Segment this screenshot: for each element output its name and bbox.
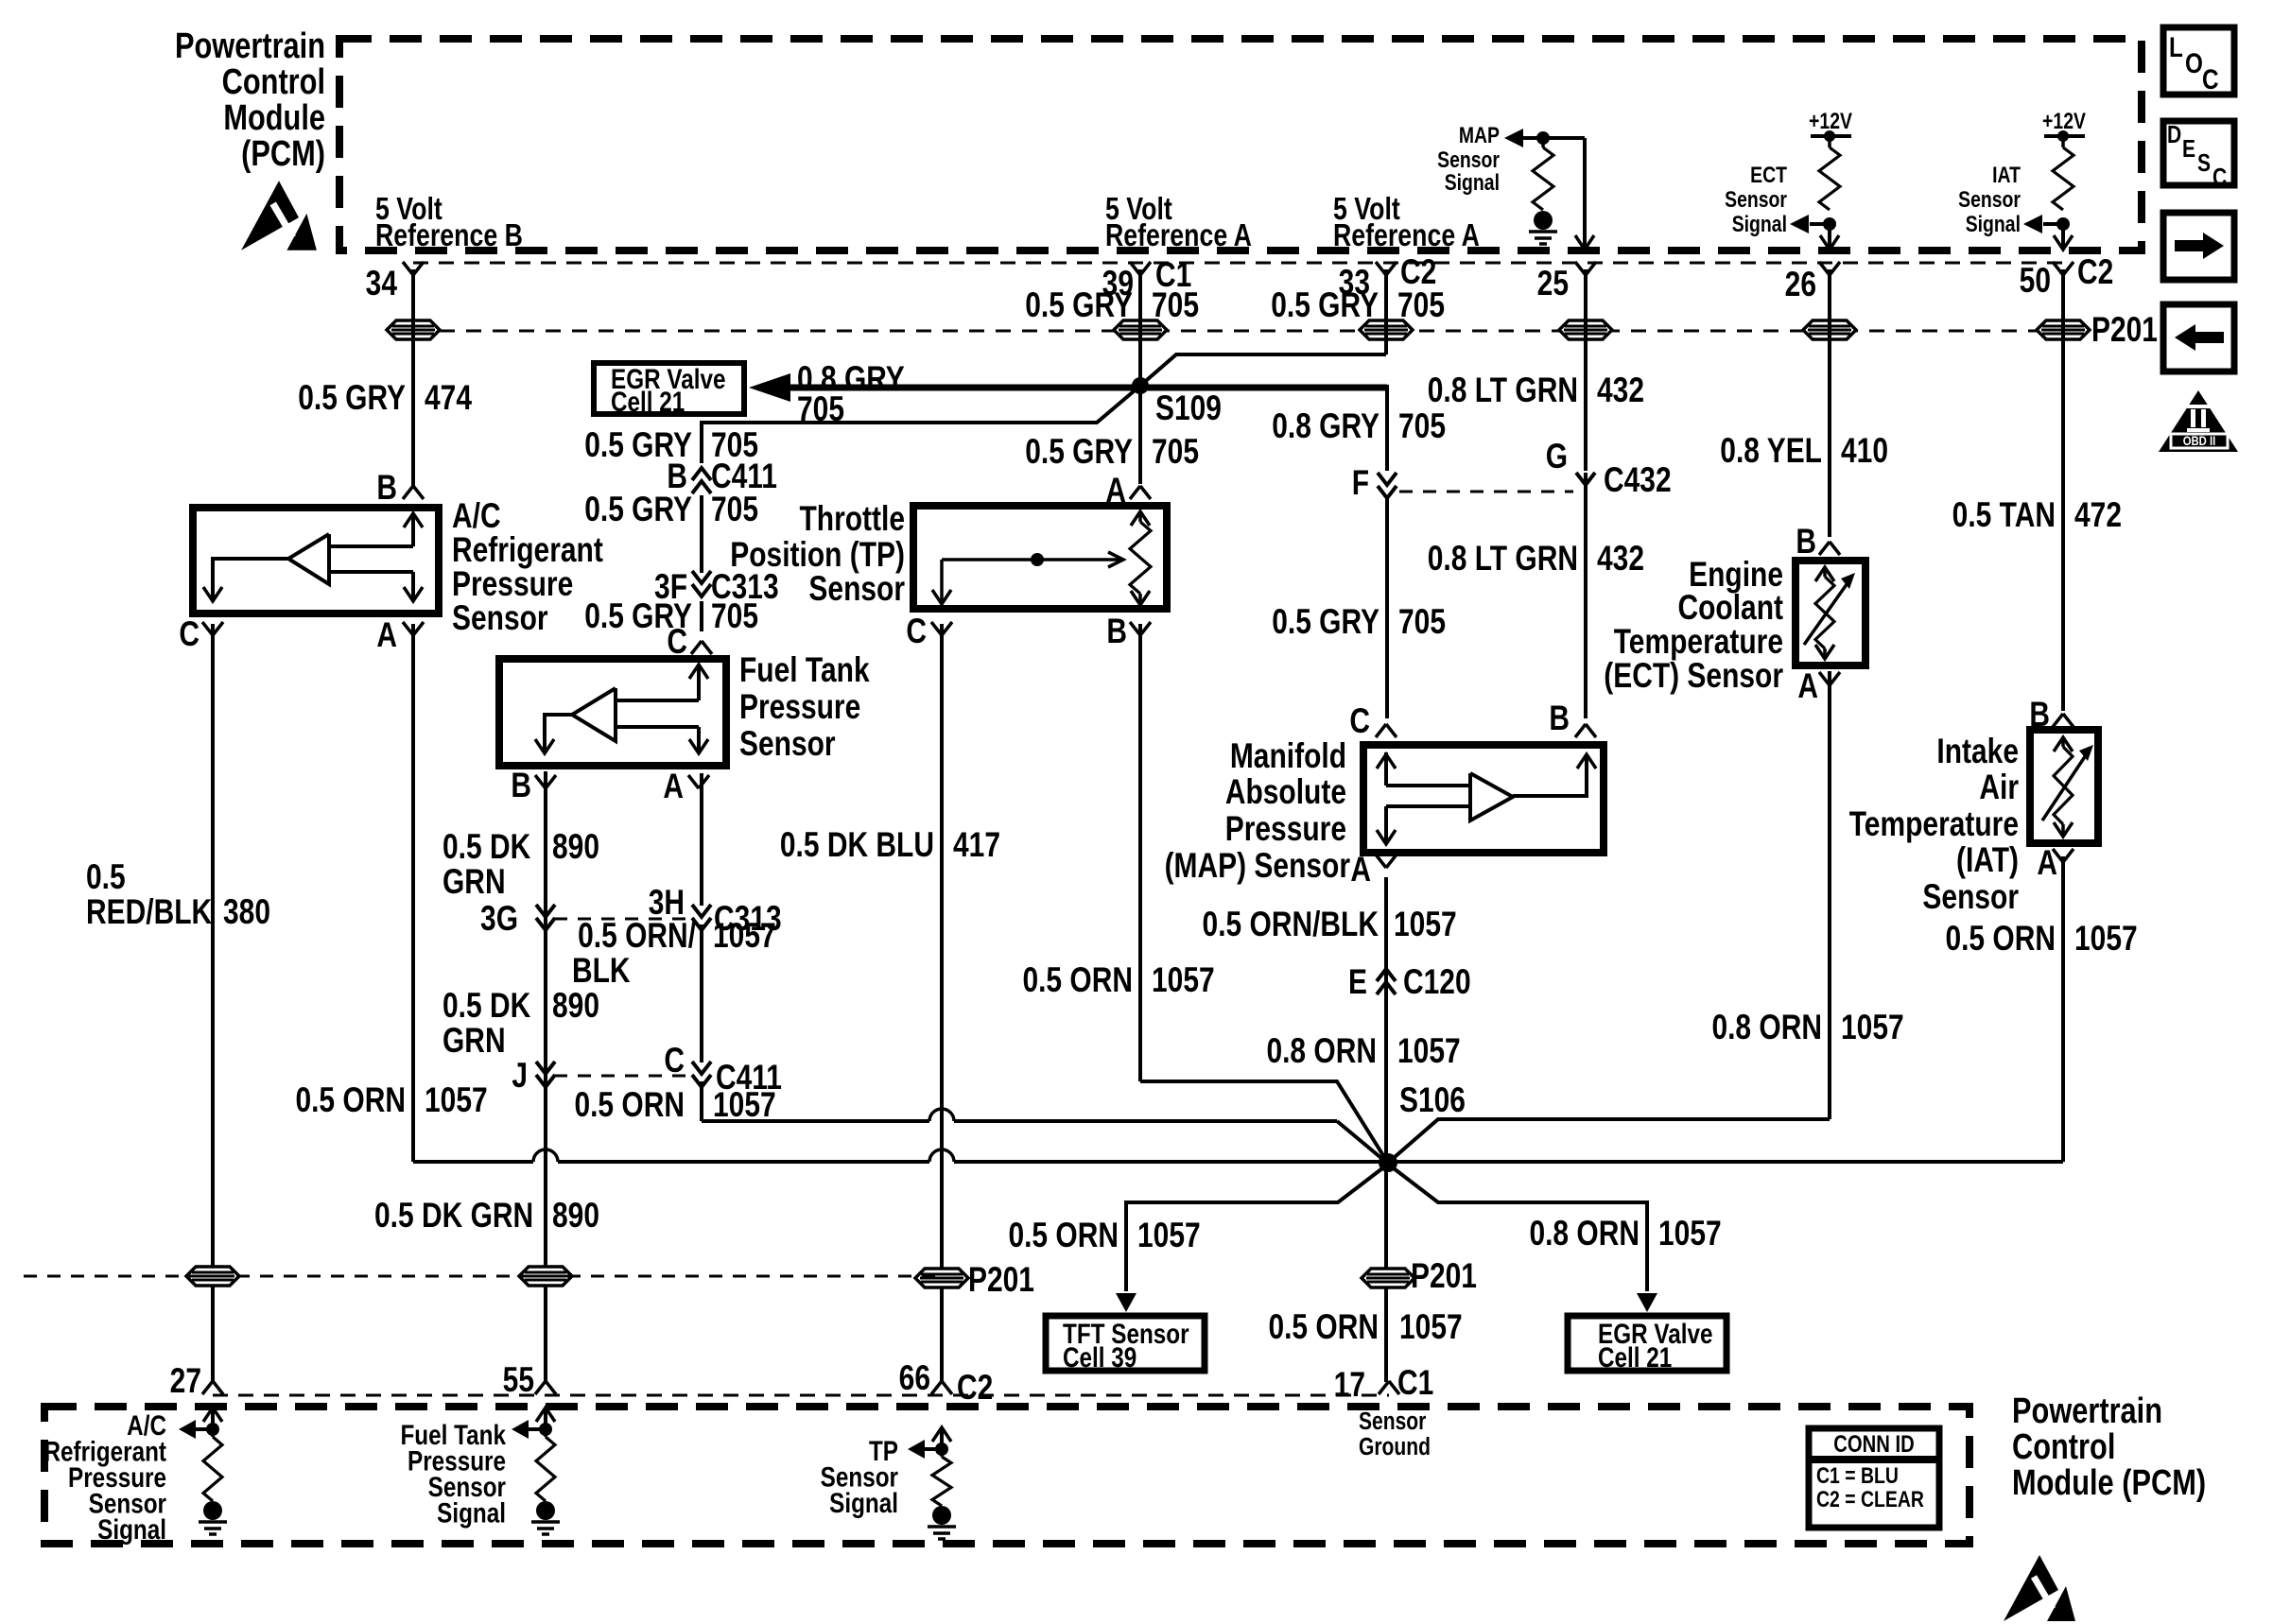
svg-text:0.5 ORN: 0.5 ORN [1945,920,2056,959]
svg-text:0.5 ORN: 0.5 ORN [1022,961,1133,1000]
svg-text:1057: 1057 [1397,1032,1461,1071]
svg-text:0.8 GRY: 0.8 GRY [1272,407,1379,446]
svg-text:C2 = CLEAR: C2 = CLEAR [1816,1486,1924,1512]
svg-text:C1: C1 [1397,1364,1433,1403]
svg-text:C120: C120 [1403,963,1471,1002]
svg-text:C: C [2202,63,2219,95]
svg-text:0.5 GRY: 0.5 GRY [1025,433,1133,472]
svg-text:3G: 3G [480,900,518,939]
svg-text:1057: 1057 [1399,1308,1463,1347]
svg-text:E: E [2182,136,2195,164]
svg-text:F: F [1352,464,1369,503]
svg-text:0.8 ORN: 0.8 ORN [1711,1009,1822,1047]
svg-text:C1 = BLU: C1 = BLU [1816,1462,1899,1488]
svg-text:25: 25 [1537,265,1569,303]
svg-text:0.5 ORN/: 0.5 ORN/ [578,917,696,956]
svg-text:ECT: ECT [1750,162,1787,187]
svg-text:0.5 ORN: 0.5 ORN [1268,1308,1379,1347]
svg-text:L: L [2169,31,2183,63]
svg-text:Sensor: Sensor [452,599,548,638]
svg-text:A: A [1797,667,1818,706]
svg-text:417: 417 [953,826,1000,865]
svg-text:+12V: +12V [2042,108,2086,133]
svg-text:Throttle: Throttle [799,500,905,539]
svg-text:380: 380 [223,893,270,932]
svg-text:C2: C2 [2077,253,2113,292]
svg-text:890: 890 [552,828,599,867]
svg-text:Cell 21: Cell 21 [611,386,685,418]
svg-text:Position (TP): Position (TP) [730,536,905,575]
svg-text:Temperature: Temperature [1614,623,1783,662]
svg-text:0.8 YEL: 0.8 YEL [1720,432,1822,471]
svg-text:17: 17 [1334,1366,1365,1405]
svg-text:C: C [664,1042,685,1080]
svg-text:+12V: +12V [1809,108,1852,133]
svg-text:0.8 ORN: 0.8 ORN [1266,1032,1377,1071]
svg-text:C: C [1349,702,1370,741]
svg-text:1057: 1057 [713,1086,776,1125]
svg-text:Module: Module [223,98,325,138]
svg-text:1057: 1057 [1137,1217,1201,1255]
svg-text:Signal: Signal [1445,169,1500,195]
svg-text:1057: 1057 [713,917,776,956]
svg-text:Sensor: Sensor [1922,878,2019,917]
svg-text:705: 705 [1152,433,1199,472]
svg-text:Reference A: Reference A [1105,218,1252,252]
svg-text:A: A [376,616,397,655]
svg-text:0.8 LT GRN: 0.8 LT GRN [1428,540,1578,579]
svg-text:C: C [906,613,927,651]
svg-text:Sensor: Sensor [1725,186,1787,212]
svg-text:IAT: IAT [1992,162,2021,187]
svg-text:S109: S109 [1155,389,1222,428]
svg-text:(IAT): (IAT) [1956,841,2019,880]
svg-text:Sensor: Sensor [808,570,905,609]
svg-text:1057: 1057 [1841,1009,1904,1047]
svg-text:C: C [2212,164,2227,192]
svg-text:A/C: A/C [452,497,501,536]
svg-text:GRN: GRN [442,863,506,902]
svg-text:B: B [1796,523,1816,561]
svg-text:O: O [2185,47,2203,79]
svg-text:S106: S106 [1399,1081,1466,1120]
svg-text:Pressure: Pressure [739,688,860,727]
svg-text:(PCM): (PCM) [241,134,325,174]
svg-text:66: 66 [899,1359,930,1398]
svg-text:(MAP) Sensor: (MAP) Sensor [1165,847,1350,886]
svg-text:Intake: Intake [1936,733,2019,771]
svg-text:B: B [376,469,397,508]
svg-text:OBD II: OBD II [2183,433,2216,448]
svg-text:705: 705 [1398,603,1446,642]
svg-text:D: D [2167,122,2181,149]
svg-text:0.8 LT GRN: 0.8 LT GRN [1428,371,1578,410]
svg-text:0.5 DK: 0.5 DK [442,987,530,1026]
svg-text:Sensor: Sensor [739,725,836,764]
svg-text:705: 705 [1397,286,1445,325]
svg-text:0.5 DK GRN: 0.5 DK GRN [374,1197,533,1235]
svg-text:0.5 DK: 0.5 DK [442,828,530,867]
svg-text:Cell 39: Cell 39 [1063,1341,1136,1373]
svg-text:Control: Control [2012,1427,2115,1467]
svg-text:55: 55 [503,1361,534,1400]
svg-text:26: 26 [1785,266,1816,304]
svg-text:Air: Air [1979,769,2019,807]
svg-text:G: G [1546,438,1568,476]
svg-text:1057: 1057 [1394,906,1457,944]
svg-text:34: 34 [366,265,398,303]
svg-text:Fuel Tank: Fuel Tank [739,651,870,690]
svg-text:27: 27 [170,1362,201,1401]
svg-text:Refrigerant: Refrigerant [452,531,603,570]
svg-text:Temperature: Temperature [1849,805,2019,844]
svg-text:P201: P201 [1411,1257,1477,1296]
svg-text:C2: C2 [957,1369,993,1408]
svg-text:432: 432 [1597,540,1644,579]
svg-text:0.5 GRY: 0.5 GRY [1272,603,1379,642]
svg-text:Sensor: Sensor [1958,186,2021,212]
svg-text:RED/BLK: RED/BLK [86,893,212,932]
svg-text:Sensor: Sensor [1359,1408,1426,1436]
svg-text:Signal: Signal [437,1496,506,1529]
svg-text:Module (PCM): Module (PCM) [2012,1463,2206,1503]
svg-text:A: A [663,768,684,806]
svg-text:E: E [1348,963,1367,1002]
svg-text:1057: 1057 [1152,961,1215,1000]
svg-text:B: B [1549,700,1570,738]
svg-text:Coolant: Coolant [1677,589,1783,628]
svg-text:0.5 ORN: 0.5 ORN [295,1081,406,1120]
svg-text:Manifold: Manifold [1230,737,1346,776]
svg-text:0.8 ORN: 0.8 ORN [1529,1215,1640,1253]
svg-text:A: A [1350,851,1371,890]
svg-text:0.5 ORN/BLK: 0.5 ORN/BLK [1203,906,1379,944]
svg-text:0.5 ORN: 0.5 ORN [1008,1217,1119,1255]
svg-text:474: 474 [425,379,472,418]
svg-text:50: 50 [2020,262,2051,301]
svg-text:MAP: MAP [1459,122,1500,147]
svg-text:890: 890 [552,1197,599,1235]
svg-text:432: 432 [1597,371,1644,410]
svg-text:0.5 GRY: 0.5 GRY [298,379,406,418]
svg-text:GRN: GRN [442,1022,506,1061]
svg-text:B: B [1106,613,1127,651]
svg-text:0.5 GRY: 0.5 GRY [1271,286,1379,325]
svg-text:0.5 TAN: 0.5 TAN [1952,496,2056,535]
svg-text:0.5 GRY: 0.5 GRY [584,491,692,529]
svg-text:Signal: Signal [97,1513,166,1546]
svg-text:410: 410 [1841,432,1888,471]
svg-text:Control: Control [222,62,325,102]
svg-text:0.5 GRY: 0.5 GRY [1025,286,1133,325]
svg-text:Powertrain: Powertrain [2012,1391,2162,1431]
svg-text:Signal: Signal [1966,211,2021,236]
svg-text:Pressure: Pressure [452,565,573,604]
svg-text:P201: P201 [2091,311,2158,350]
svg-text:Signal: Signal [829,1487,898,1519]
svg-text:CONN ID: CONN ID [1833,1430,1914,1458]
svg-text:890: 890 [552,987,599,1026]
svg-text:C432: C432 [1604,461,1672,500]
svg-text:705: 705 [711,491,758,529]
svg-text:Signal: Signal [1732,211,1787,236]
svg-text:1057: 1057 [2074,920,2138,959]
svg-text:J: J [512,1057,528,1096]
svg-text:Cell 21: Cell 21 [1598,1341,1672,1373]
svg-text:Reference B: Reference B [375,218,523,252]
svg-text:P201: P201 [968,1261,1034,1300]
svg-text:472: 472 [2074,496,2122,535]
svg-text:S: S [2197,150,2211,178]
svg-text:C: C [179,615,200,654]
svg-text:BLK: BLK [572,952,631,991]
svg-text:(ECT) Sensor: (ECT) Sensor [1604,657,1783,696]
svg-text:Ground: Ground [1359,1434,1431,1461]
svg-text:0.5 ORN: 0.5 ORN [574,1086,685,1125]
svg-text:705: 705 [1152,286,1199,325]
svg-text:Absolute: Absolute [1225,773,1346,812]
svg-text:Reference A: Reference A [1333,218,1480,252]
svg-text:705: 705 [1398,407,1446,446]
svg-text:705: 705 [711,597,758,636]
svg-text:1057: 1057 [425,1081,488,1120]
svg-text:Powertrain: Powertrain [175,26,325,66]
svg-text:A: A [2037,844,2057,883]
svg-text:B: B [511,767,531,805]
svg-text:0.5: 0.5 [86,858,126,897]
svg-text:0.5 DK BLU: 0.5 DK BLU [780,826,934,865]
svg-text:Pressure: Pressure [1225,810,1346,849]
svg-text:1057: 1057 [1658,1215,1722,1253]
